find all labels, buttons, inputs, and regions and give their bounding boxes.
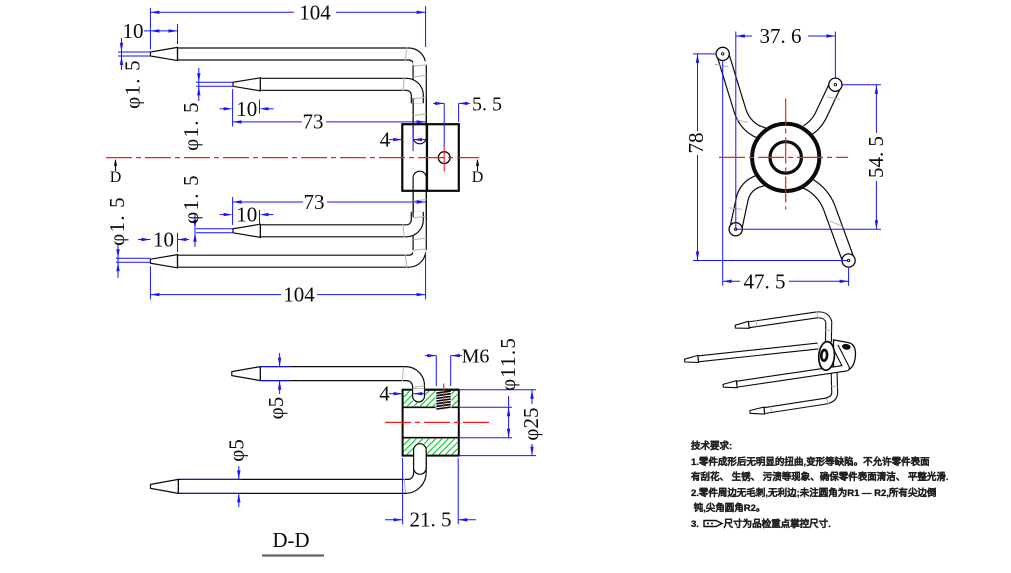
svg-text:73: 73 (304, 190, 325, 214)
svg-text:10: 10 (153, 228, 174, 252)
arm end eyelet TR (829, 78, 842, 91)
vertical shank upper (P1/P2 merged tube) (413, 61, 426, 124)
svg-text:φ5: φ5 (264, 397, 288, 420)
dim phi5 lower prong (181, 478, 241, 480)
dim 10 P4 (138, 239, 150, 241)
front view arm (lower-left) (736, 180, 763, 230)
M6 axis centerline (red) (443, 384, 445, 410)
arm end eyelet BR (842, 254, 855, 267)
3D prong P2 tube (698, 346, 818, 359)
svg-text:54. 5: 54. 5 (864, 136, 888, 178)
set screw hole (438, 152, 450, 164)
front view arm to P2 tip (upper-right) (807, 85, 836, 131)
dim phi25 (459, 389, 536, 391)
svg-text:78: 78 (684, 133, 708, 154)
front view vertical centerline (red) (785, 99, 787, 210)
svg-text:φ1. 5: φ1. 5 (179, 174, 203, 224)
svg-text:104: 104 (299, 0, 331, 24)
front arm tangent marks (gray) (715, 64, 729, 67)
front view horizontal centerline (red) (719, 156, 848, 158)
svg-text:D: D (472, 169, 484, 186)
3D prong P4 tube (764, 372, 834, 411)
arm end eyelet BL (729, 223, 742, 236)
lower slot with tube end capsule (414, 444, 427, 457)
svg-text:5. 5: 5. 5 (472, 93, 502, 115)
dim phi1.5 P3 witness lines (196, 228, 233, 230)
dim 10 top prong (144, 30, 178, 32)
hub bore ring (770, 142, 801, 173)
3D M6 hole (dark) (842, 343, 851, 350)
svg-text:4: 4 (379, 382, 390, 406)
shank wall segment below P2 bend (412, 98, 414, 124)
svg-text:104: 104 (283, 283, 315, 307)
svg-text:37. 6: 37. 6 (760, 24, 802, 48)
dim 10 P2 (220, 108, 225, 110)
fork prong P4 (bottom outer) side view (178, 242, 420, 261)
centerline axis D-D (red) (106, 157, 479, 159)
hub outer ring (knurled) (752, 124, 819, 191)
svg-text:10: 10 (236, 97, 257, 121)
dim phi5 upper prong (260, 366, 290, 368)
section bore lines (403, 406, 459, 408)
lower tube end inside slot (412, 178, 414, 191)
dim phi1.5 P1 witness lines (118, 51, 150, 53)
dim phi1.5 P4 witness lines (116, 257, 150, 259)
svg-text:φ1. 5: φ1. 5 (121, 59, 145, 109)
svg-text:M6: M6 (462, 346, 490, 368)
svg-text:φ25: φ25 (519, 407, 543, 440)
dim 104 top extension lines (149, 8, 151, 50)
front view arm to P1 tip (upper-left) (723, 54, 765, 134)
dim 73 bottom (233, 201, 303, 203)
dim 21.5 (385, 519, 403, 521)
dim M6 (425, 355, 436, 357)
section mark D right (477, 160, 479, 171)
set screw hole centerline (red) (443, 147, 445, 172)
M6 set screw thread coil (436, 391, 452, 409)
3D bend tangent marks (gray) (817, 312, 819, 319)
3D prong P3 tube (737, 346, 847, 384)
svg-text:φ11.5: φ11.5 (496, 337, 520, 391)
dim 104 bottom extension lines (149, 266, 151, 300)
hub body (right block) (427, 124, 459, 191)
dim 37.6 (736, 35, 752, 37)
svg-text:D-D: D-D (273, 528, 310, 552)
dim 54.5 (875, 85, 877, 133)
svg-text:φ1. 5: φ1. 5 (179, 101, 203, 151)
section upper prong tube (260, 367, 424, 390)
bend tangent marks (gray) (413, 65, 426, 67)
shank wall segment above P3 bend (412, 191, 414, 218)
dim 78 (697, 54, 699, 131)
arm end eyelet TL (716, 47, 729, 60)
vertical shank lower (P3/P4 merged tube) (413, 191, 426, 254)
section lower prong tube (178, 456, 426, 494)
hub slotted collar (left block) (402, 124, 427, 191)
3D prong P4 tip (750, 407, 765, 414)
dim 104 bottom (150, 294, 281, 296)
upper tube end inside slot (412, 124, 414, 137)
fork prong P1 (top outer) side view (178, 54, 420, 73)
dim phi1.5 P2 witness lines (196, 81, 233, 83)
upper slot with tube end cap (413, 389, 425, 401)
svg-text:10: 10 (236, 203, 257, 227)
section hub outline (403, 390, 459, 456)
section hub top edge over screw (425, 389, 459, 391)
svg-text:φ5: φ5 (224, 439, 248, 462)
3D hub cylinder (834, 340, 856, 372)
3D prong P1 tip (735, 321, 749, 328)
dim phi11.5 (459, 406, 512, 408)
dim 104 top (150, 11, 294, 13)
section centerline (red) (385, 421, 489, 423)
svg-text:D: D (110, 169, 122, 186)
front view arm (lower-right) (806, 183, 849, 261)
dim 10 P3 (220, 214, 225, 216)
section mark D left (115, 160, 117, 171)
svg-text:47. 5: 47. 5 (744, 269, 786, 293)
3D hub ring (bore flange) (818, 341, 836, 371)
fork prong P3 (bottom inner) side view (260, 212, 417, 231)
dim 73 top (233, 121, 302, 123)
3D prong P1 tube (749, 315, 829, 342)
3D prong P3 tip (723, 381, 737, 388)
section gray tangent marks (402, 368, 403, 382)
svg-text:21. 5: 21. 5 (410, 508, 452, 532)
3D prong P2 tip (684, 355, 698, 362)
fork prong P2 (top inner) side view (260, 84, 417, 103)
technical requirements text block (691, 439, 943, 533)
svg-text:73: 73 (303, 110, 324, 134)
svg-text:10: 10 (123, 19, 144, 43)
svg-text:φ1. 5: φ1. 5 (105, 196, 129, 246)
dim 5.5 (433, 102, 444, 104)
dim 47.5 (723, 280, 740, 282)
